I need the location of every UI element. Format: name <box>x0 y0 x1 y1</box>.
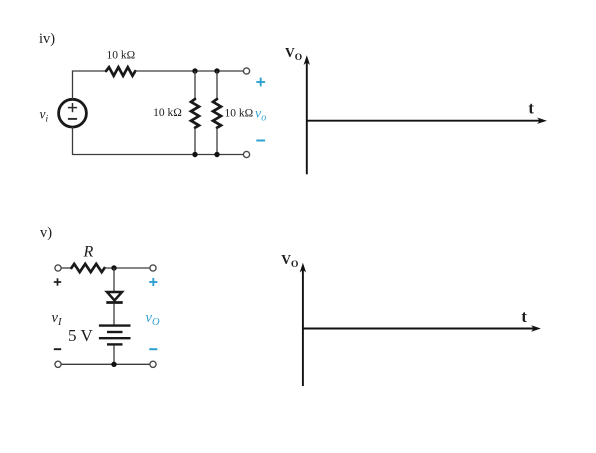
wire: node E down to diode <box>113 268 115 291</box>
input terminal top-left (open circle) <box>55 265 61 271</box>
resistor R2 10 kOhm (first shunt, vertical) <box>191 71 199 155</box>
label - (cyan, output polarity) <box>149 348 157 350</box>
wire: source top to series resistor (left vertical + top horizontal) <box>73 71 107 99</box>
output terminal bottom-right (open circle) <box>150 361 156 367</box>
wire: series resistor to output terminal (top) <box>135 70 243 72</box>
svg-text:vO: vO <box>146 310 160 328</box>
junction node A (top of first shunt resistor) <box>192 68 197 73</box>
svg-text:10 kΩ: 10 kΩ <box>153 107 182 119</box>
label - (cyan, output polarity) <box>256 140 265 142</box>
output terminal - (open circle, bottom right) <box>243 151 249 157</box>
graph 1 horizontal axis with right arrowhead <box>307 118 547 124</box>
svg-text:iv): iv) <box>39 31 55 47</box>
output terminal top-right (open circle) <box>150 265 156 271</box>
input terminal bottom-left (open circle) <box>55 361 61 367</box>
svg-text:5 V: 5 V <box>68 326 93 345</box>
voltage source Vi (circle with + and -) <box>59 99 87 127</box>
svg-text:10 kΩ: 10 kΩ <box>225 108 254 120</box>
wire: diode to battery <box>113 304 115 325</box>
label + (cyan, output polarity) <box>149 278 157 286</box>
svg-text:10 kΩ: 10 kΩ <box>106 49 135 61</box>
junction node F (battery / bottom rail) <box>111 362 116 367</box>
label + (black, input polarity) <box>54 278 61 285</box>
bottom rail wire <box>61 363 150 365</box>
svg-text:vi: vi <box>40 106 49 124</box>
junction node C (bottom of first shunt resistor) <box>192 152 197 157</box>
wire: battery to bottom rail <box>113 346 115 365</box>
svg-text:v): v) <box>40 225 52 241</box>
graph 2 horizontal axis with right arrowhead <box>303 325 541 331</box>
svg-text:t: t <box>528 98 534 117</box>
svg-text:VO: VO <box>285 45 302 63</box>
junction node D (bottom of second shunt resistor) <box>214 152 219 157</box>
resistor R (horizontal zigzag) <box>71 264 104 272</box>
resistor R1 10 kOhm (series, horizontal zigzag) <box>106 67 135 76</box>
wire: source bottom to output terminal (bottom) <box>73 127 244 155</box>
junction node B (top of second shunt resistor) <box>214 68 219 73</box>
wire: resistor R to output terminal (top) <box>105 267 150 269</box>
svg-text:vo: vo <box>255 107 266 124</box>
junction node E (R / diode junction) <box>111 265 116 270</box>
svg-text:vI: vI <box>52 310 62 328</box>
label + (cyan, output polarity) <box>256 78 265 87</box>
graph 1 vertical axis with up arrowhead <box>304 55 310 174</box>
wire: input terminal to resistor R <box>61 267 71 269</box>
svg-text:VO: VO <box>281 252 298 270</box>
svg-text:t: t <box>521 307 527 326</box>
resistor R3 10 kOhm (second shunt, vertical) <box>213 71 221 155</box>
graph 2 vertical axis with up arrowhead <box>300 263 306 386</box>
label - (black, input polarity) <box>54 348 61 350</box>
svg-text:R: R <box>83 244 94 261</box>
diode D1 (pointing down: triangle + cathode bar) <box>106 292 122 303</box>
battery B1 5V (four plates) <box>99 326 131 345</box>
output terminal + (open circle, top right) <box>243 68 249 74</box>
